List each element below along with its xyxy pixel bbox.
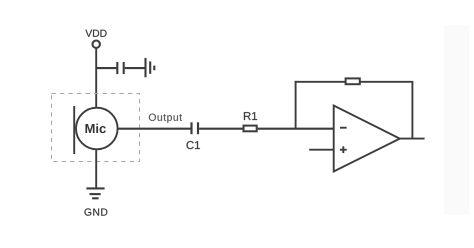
- capacitor C1 plate 2: [197, 122, 199, 134]
- wire op-amp output: [399, 138, 425, 140]
- mic label: [85, 124, 105, 134]
- resistor R1 body: [244, 126, 257, 132]
- node VDD label: [85, 30, 106, 37]
- op-amp non-inverting pin plus sign: [340, 149, 347, 151]
- wire mic to C1: [118, 128, 191, 130]
- wire VDD vertical to mic: [95, 48, 97, 108]
- ground bar 3: [92, 197, 99, 199]
- ground (rotated) bar 3: [153, 66, 155, 71]
- wire capacitor to ground: [125, 67, 145, 69]
- resistor R1 label: [244, 112, 257, 120]
- wire feedback top horizontal: [295, 81, 414, 83]
- ground bar 2: [90, 193, 101, 195]
- wire feedback left vertical: [295, 81, 297, 129]
- ground (rotated) bar 1: [144, 58, 146, 77]
- wire mic to ground: [95, 149, 97, 188]
- wire to decoupling capacitor: [96, 67, 116, 69]
- op-amp inverting pin minus sign: [340, 127, 347, 129]
- mic electret bar: [73, 106, 75, 154]
- wire feedback right vertical: [411, 82, 413, 139]
- op-amp U1 triangle: [334, 106, 400, 172]
- capacitor decoupling plate 1: [116, 62, 118, 74]
- node Output label: [149, 114, 182, 123]
- mic body circle: [76, 108, 118, 150]
- resistor feedback body: [346, 78, 360, 84]
- wire non-inverting input stub: [309, 149, 334, 151]
- ground bar 1: [86, 187, 104, 189]
- capacitor decoupling plate 2: [123, 62, 125, 74]
- mic enclosure dashed box: [52, 94, 140, 162]
- VDD terminal circle: [93, 41, 100, 48]
- capacitor C1 label: [186, 141, 199, 149]
- ground (rotated) bar 2: [149, 61, 151, 73]
- wire R1 to op-amp inverting input: [258, 128, 334, 130]
- wire C1 to R1: [199, 128, 242, 130]
- node GND label: [84, 208, 107, 215]
- capacitor C1 plate 1: [190, 122, 192, 134]
